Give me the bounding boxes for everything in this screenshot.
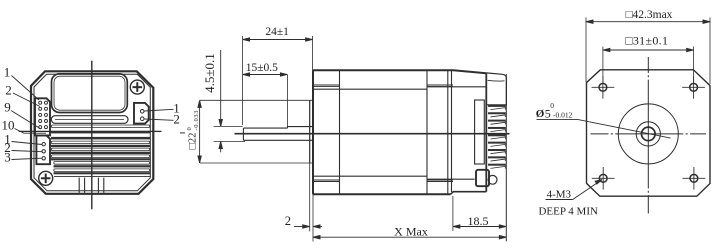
4-M3 leader with arrow: [573, 180, 602, 200]
body chamfer line top: [313, 88, 427, 90]
heatsink light bar 5: [54, 162, 150, 165]
right-side connector block (2-pin): [134, 103, 149, 124]
left view vertical centerline: [91, 61, 93, 210]
upper-left connector pins (2 cols x 5 rows): [39, 101, 48, 128]
dim 24±1 extension left: [242, 36, 244, 125]
heatsink dark bar 5: [51, 158, 151, 160]
centerline dash segment right of view: [180, 132, 185, 134]
svg-text:□22: □22: [188, 133, 199, 150]
left view inner border: [34, 74, 150, 191]
heatsink bottom thin line: [54, 175, 151, 177]
bottom vent slot left: [79, 178, 84, 193]
dim 2 extension right (flange face): [312, 194, 314, 241]
svg-text:1: 1: [4, 65, 11, 80]
dim 4.5±0.1 extension bottom: [214, 141, 246, 143]
bottom tab bracket: [476, 170, 489, 186]
driver top connector (side): [486, 73, 506, 105]
screw bottom-left: [39, 171, 53, 185]
heatsink light bar 2: [51, 141, 149, 144]
dim text □22 0/-0.033 (rotated): [186, 111, 200, 150]
svg-text:Ø: Ø: [536, 108, 545, 120]
left view horizontal centerline: [19, 130, 162, 132]
mounting hole bottom-left: [592, 167, 615, 190]
heatsink hairpin inner line: [55, 119, 124, 121]
bottom vent slot right: [98, 178, 103, 193]
heatsink dark bar 2: [51, 137, 151, 140]
rear face line 1: [447, 70, 449, 194]
svg-text:2: 2: [173, 112, 180, 127]
svg-text:2: 2: [5, 83, 12, 98]
leader label 1: [12, 76, 40, 101]
leader label 10: [15, 129, 47, 134]
svg-text:4-M3: 4-M3: [547, 188, 572, 200]
lower-left connector block (3-pin): [36, 135, 50, 164]
dim 24±1 line with arrows: [243, 38, 313, 41]
lower-left connector pins: [42, 143, 45, 161]
dim 24±1 extension right: [312, 36, 314, 100]
bearing boss circle: [636, 122, 660, 146]
svg-text:18.5: 18.5: [468, 214, 489, 228]
right view horizontal centerline: [591, 133, 707, 135]
svg-text:10: 10: [2, 117, 15, 132]
heatsink dark bar 1 (on centerline): [51, 131, 151, 134]
boss top extension line (D22 top): [200, 99, 313, 101]
left view body outline (chamfered square housing): [31, 71, 153, 194]
shaft label leader: [537, 119, 671, 138]
leader right 2: [145, 119, 174, 120]
heatsink dark bar 7 (bottom): [54, 172, 151, 174]
driver lower vertical: [485, 168, 487, 192]
right view flange outline (chamfered square): [587, 70, 711, 196]
front end cap edge: [339, 70, 341, 194]
dim 42.3 extension left: [585, 18, 587, 83]
dim X Max line with arrows: [313, 236, 506, 239]
dim 15±0.5 line with arrows: [243, 73, 288, 76]
heatsink dark bar 4: [51, 152, 151, 154]
inner cover plate (tall): [475, 100, 485, 164]
dim 15±0.5 extension right: [286, 75, 288, 127]
heatsink hairpin fin (top loop): [51, 116, 128, 124]
cap chamfer companion bottom: [313, 180, 453, 182]
connector molding line: [488, 79, 505, 82]
dim 18.5 extension left: [452, 196, 454, 231]
heatsink light bar 1: [51, 125, 149, 128]
mounting hole bottom-right: [683, 167, 706, 190]
dim 4.5±0.1 line with outside arrows: [219, 50, 222, 152]
pilot boss circle: [618, 104, 678, 164]
driver right edge / extension line: [505, 74, 507, 241]
bottom tab circle: [488, 175, 497, 184]
motor body bottom edge: [313, 193, 451, 195]
svg-text:-0.033: -0.033: [193, 111, 200, 131]
driver bottom edge: [451, 192, 487, 195]
mounting hole top-right: [682, 76, 705, 99]
dim 31 extension left: [602, 47, 604, 84]
screw top-right phillips cross: [133, 82, 143, 92]
rear face line 2: [451, 70, 453, 192]
screw bottom-left phillips cross: [41, 174, 51, 184]
shaft outline: [243, 127, 313, 141]
heatsink dark bar 6: [54, 165, 151, 167]
leader right 1: [145, 109, 174, 111]
mounting flange face: [312, 70, 314, 194]
4-M3 underline: [546, 199, 573, 201]
svg-text:24±1: 24±1: [265, 26, 289, 38]
svg-text:DEEP 4 MIN: DEEP 4 MIN: [538, 206, 598, 218]
leader lower 1: [12, 142, 43, 145]
rear end cap edge: [426, 70, 428, 194]
top cover window (rounded rect, outer): [52, 74, 128, 113]
svg-text:4.5±0.1: 4.5±0.1: [202, 53, 217, 93]
upper-left connector block (10-pin): [35, 98, 50, 135]
shaft axis centerline: [235, 133, 510, 135]
svg-text:2: 2: [285, 214, 291, 228]
driver chamfer line bottom: [427, 178, 475, 180]
svg-text:□42.3max: □42.3max: [626, 9, 673, 21]
leader label 9: [11, 111, 41, 130]
svg-text:X Max: X Max: [394, 224, 428, 238]
driver chamfer line top: [427, 86, 486, 88]
dim 31 line with arrows: [603, 48, 694, 51]
dim 4.5±0.1 extension top (to shaft flat): [214, 125, 243, 127]
svg-text:0: 0: [186, 127, 193, 130]
boss bottom extension line (D22 bottom): [200, 162, 313, 164]
right-side connector pins: [140, 110, 144, 121]
mounting hole top-left: [592, 76, 615, 99]
leader label 2: [13, 93, 40, 107]
top cover window inner line: [54, 76, 125, 110]
heatsink dark bar 3: [51, 145, 151, 147]
motor body top edge: [313, 70, 486, 73]
driver heatsink spine: [485, 74, 487, 192]
dim 42.3 extension right: [709, 18, 711, 85]
dim 31 extension right: [693, 47, 695, 84]
shaft circle: [642, 127, 656, 141]
leader lower 2: [12, 151, 43, 152]
heatsink light bar 4: [51, 155, 149, 158]
cap chamfer companion top: [313, 85, 453, 87]
svg-text:0: 0: [550, 101, 554, 110]
svg-text:□31±0.1: □31±0.1: [625, 34, 668, 48]
dim 18.5 line with arrows: [453, 225, 506, 228]
right view vertical centerline: [647, 57, 649, 214]
svg-text:9: 9: [4, 100, 11, 115]
heatsink fins side (9 slats): [488, 105, 505, 169]
svg-text:-0.012: -0.012: [553, 111, 573, 120]
heatsink light bar 6: [54, 169, 150, 172]
shaft dia label Ø5 0/-0.012: [536, 101, 573, 120]
svg-text:3: 3: [4, 149, 11, 164]
dim 42.3 line with arrows: [586, 20, 710, 23]
dim 2 outside arrows: [294, 225, 322, 228]
dim 2 extension left (boss face): [309, 163, 311, 231]
leader lower 3: [12, 158, 43, 159]
heatsink light bar 3: [51, 148, 149, 151]
svg-text:15±0.5: 15±0.5: [246, 62, 278, 74]
screw top-right: [130, 80, 144, 94]
dim D22 line with arrows: [198, 100, 201, 162]
body chamfer line bottom: [313, 175, 427, 177]
pilot boss front face: [309, 100, 311, 163]
